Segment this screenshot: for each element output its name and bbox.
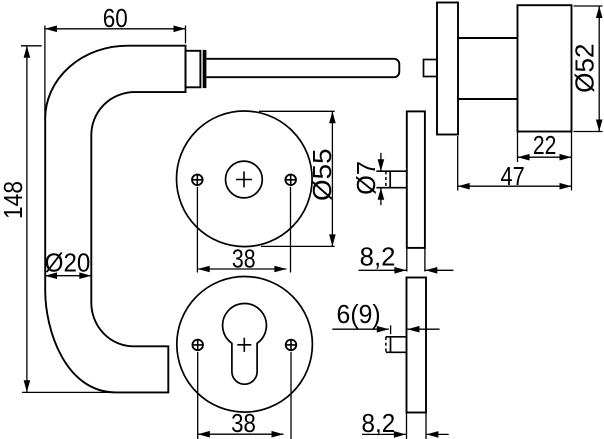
svg-text:Ø52: Ø52 — [572, 44, 600, 93]
svg-text:47: 47 — [501, 163, 525, 191]
svg-text:Ø20: Ø20 — [45, 249, 91, 277]
svg-text:22: 22 — [533, 132, 557, 160]
svg-text:8,2: 8,2 — [362, 410, 396, 438]
svg-text:Ø7: Ø7 — [353, 161, 381, 195]
svg-text:8,2: 8,2 — [360, 244, 396, 272]
svg-text:6(9): 6(9) — [337, 301, 381, 329]
svg-text:Ø55: Ø55 — [309, 148, 337, 201]
svg-text:60: 60 — [103, 5, 128, 33]
svg-text:38: 38 — [231, 410, 256, 438]
svg-text:38: 38 — [232, 246, 256, 274]
svg-text:148: 148 — [0, 181, 28, 219]
